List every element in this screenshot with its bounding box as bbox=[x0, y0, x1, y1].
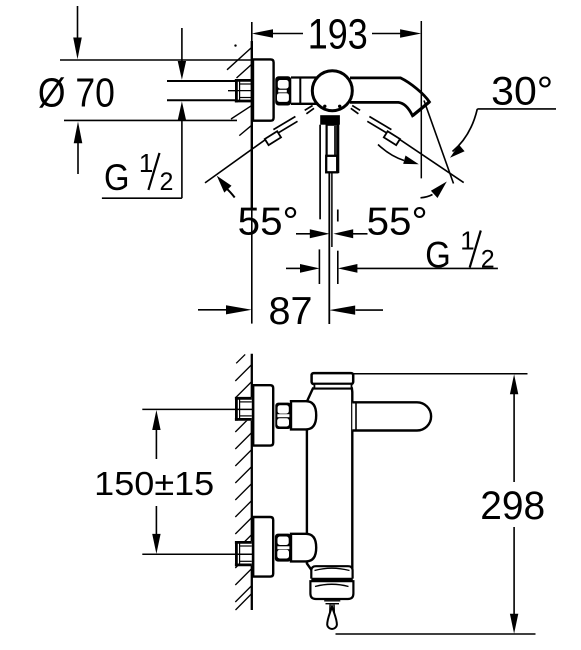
svg-text:87: 87 bbox=[269, 290, 313, 333]
svg-text:1: 1 bbox=[139, 148, 153, 178]
dimension 193 bbox=[252, 29, 421, 38]
55 deg line right bbox=[400, 139, 464, 182]
lever handle side view bbox=[352, 402, 431, 430]
node dot left in circle bbox=[323, 105, 326, 108]
wall hatching top view bbox=[227, 47, 252, 136]
wire supply pipe bottom line bbox=[167, 99, 236, 101]
wall socket top view bbox=[228, 79, 252, 102]
handle grip bbox=[327, 125, 339, 172]
wire extension line right of 193 bbox=[420, 21, 422, 178]
spout divider bbox=[311, 578, 353, 581]
escutcheon side upper bbox=[253, 385, 273, 445]
30 deg arc arrow bbox=[453, 109, 478, 152]
spout outlet face bbox=[413, 102, 430, 116]
svg-text:150±15: 150±15 bbox=[94, 466, 214, 503]
svg-text:Ø 70: Ø 70 bbox=[38, 69, 115, 115]
union bulge lower bbox=[291, 534, 316, 562]
union bulge upper bbox=[291, 401, 316, 429]
node speck bbox=[234, 44, 236, 46]
spout mouth lines bbox=[324, 600, 340, 602]
swing arc arrow right bbox=[378, 145, 404, 161]
dimension 298 bbox=[336, 374, 536, 634]
spout assembly bottom bbox=[310, 566, 353, 629]
svg-text:2: 2 bbox=[160, 168, 174, 196]
wire supply pipe top line bbox=[167, 80, 236, 82]
spout upper band bbox=[311, 566, 352, 578]
55 right arc arrow bbox=[421, 195, 433, 198]
55 deg line left bbox=[205, 139, 267, 183]
handle top view bbox=[320, 115, 340, 324]
55 left arc arrow bbox=[226, 188, 235, 198]
hex nut top view bbox=[275, 76, 291, 105]
wall socket side lower bbox=[235, 541, 252, 566]
dimension G1/2 left (pipe) bbox=[102, 28, 186, 198]
escutcheon top view bbox=[253, 59, 274, 120]
center convergence arrows bbox=[296, 229, 368, 238]
wire pipe centerline bbox=[228, 90, 253, 92]
handle collar bbox=[320, 115, 340, 125]
body cap bbox=[312, 373, 354, 384]
water drop bbox=[329, 605, 331, 614]
body side view bbox=[307, 388, 352, 570]
hex nut side lower bbox=[275, 534, 291, 562]
wire handle centerline bbox=[328, 172, 330, 324]
svg-text:G: G bbox=[104, 157, 130, 198]
svg-text:298: 298 bbox=[480, 484, 545, 528]
label G 1/2 left bbox=[104, 148, 173, 198]
wire union pipe to body bbox=[291, 76, 320, 78]
svg-text:1: 1 bbox=[460, 225, 474, 255]
handle end cap bbox=[326, 156, 337, 173]
body circle bbox=[312, 71, 352, 111]
svg-text:G: G bbox=[425, 235, 451, 276]
svg-text:2: 2 bbox=[481, 246, 495, 274]
node dot right in circle bbox=[338, 105, 341, 108]
wall hatching side view bbox=[235, 354, 252, 610]
dimension 150±15 bbox=[142, 409, 252, 554]
wire handle left edge bbox=[319, 125, 321, 220]
dashed handle position right bbox=[351, 106, 400, 146]
30 deg steep line bbox=[424, 101, 454, 184]
escutcheon side lower bbox=[253, 517, 273, 577]
body cap band bbox=[314, 384, 351, 389]
label G 1/2 right bbox=[425, 225, 494, 275]
svg-text:30°: 30° bbox=[491, 70, 553, 114]
dimension G1/2 right bbox=[286, 249, 498, 284]
spout top-view outline bbox=[350, 78, 429, 116]
dimension dia 70 bbox=[60, 6, 252, 174]
dimension 87 bbox=[198, 305, 383, 315]
svg-text:55°: 55° bbox=[367, 201, 428, 244]
wall socket side upper bbox=[235, 397, 252, 421]
svg-text:55°: 55° bbox=[238, 201, 299, 244]
wire handle right edge bbox=[337, 125, 339, 172]
dashed handle position left bbox=[265, 106, 314, 146]
spout lower band bbox=[310, 581, 353, 599]
wall line top view bbox=[251, 22, 253, 41]
hex nut side upper bbox=[275, 403, 291, 429]
svg-text:193: 193 bbox=[308, 11, 368, 58]
wall line side view bbox=[251, 354, 253, 610]
